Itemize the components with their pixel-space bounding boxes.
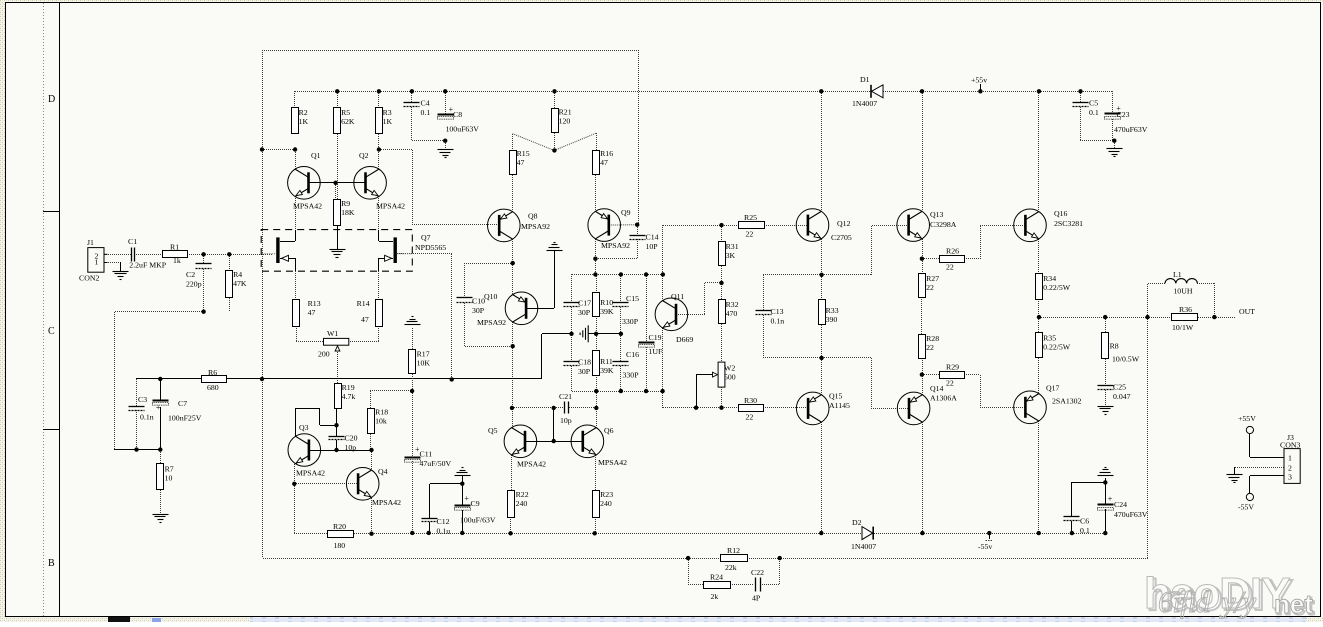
svg-text:120: 120	[559, 117, 571, 126]
junction C9 top	[460, 482, 464, 486]
wire Q12 collector riser	[821, 91, 823, 211]
wire Q3 base wire	[309, 450, 372, 452]
ground R7 gnd	[153, 515, 169, 523]
wire x638 vertical	[638, 50, 640, 225]
transistor Q14	[897, 384, 957, 425]
svg-text:R9: R9	[341, 199, 350, 208]
svg-text:C21: C21	[559, 392, 572, 401]
wire C14 vert	[637, 225, 639, 236]
wire R1 to gate	[187, 254, 273, 256]
svg-text:0.1: 0.1	[1089, 108, 1099, 117]
wire R8 to C25	[1105, 359, 1107, 385]
transistor Q16	[1014, 209, 1083, 242]
wire bottom input wire	[114, 449, 160, 451]
svg-text:R2: R2	[299, 108, 308, 117]
wire Q4 emitter drop	[371, 498, 373, 533]
capacitor C24	[1098, 494, 1148, 519]
wire Q11 base path	[676, 283, 722, 315]
transistor Q8	[488, 209, 551, 242]
svg-text:2SA1302: 2SA1302	[1052, 397, 1082, 406]
wire R18 top riser	[370, 391, 372, 408]
junction stair	[334, 423, 338, 427]
junction R25 left	[719, 223, 723, 227]
wire Q8c chain	[512, 239, 514, 295]
wire C20 top	[336, 425, 338, 436]
wire R9 gnd stem	[337, 225, 339, 249]
svg-text:10UH: 10UH	[1173, 287, 1192, 296]
svg-text:R6: R6	[208, 368, 217, 377]
capacitor C1	[128, 237, 167, 270]
resistor R34	[1036, 274, 1071, 300]
node OUT	[1239, 307, 1255, 316]
wire R29 to Q17b	[964, 375, 1025, 408]
junction C24 bottom	[1103, 531, 1107, 535]
svg-text:MPSA42: MPSA42	[372, 498, 401, 507]
wire C4-C8 bottom	[412, 107, 446, 150]
svg-text:R19: R19	[342, 383, 355, 392]
svg-text:C9: C9	[471, 499, 480, 508]
resistor R25	[739, 213, 765, 239]
svg-text:470uF63V: 470uF63V	[1114, 125, 1148, 134]
wire R14-W1	[349, 326, 379, 342]
transistor Q11	[655, 292, 693, 344]
wire R19 top	[337, 384, 339, 395]
svg-text:10K: 10K	[417, 359, 431, 368]
wire R31-R32	[721, 266, 723, 300]
wire Q5-Q6 base	[525, 441, 583, 443]
resistor R19	[335, 383, 356, 409]
svg-text:1K: 1K	[383, 117, 393, 126]
wire R21 bottom to apex	[554, 133, 556, 150]
svg-text:22k: 22k	[725, 563, 737, 572]
junction C21 c	[594, 406, 598, 410]
resistor R23	[593, 490, 614, 518]
junction -55v node	[987, 531, 991, 535]
wire C3 bottom	[136, 410, 138, 450]
svg-text:R31: R31	[726, 242, 739, 251]
wire R33 bottom	[821, 325, 823, 358]
wire Q6 collector riser	[596, 391, 598, 428]
svg-text:680: 680	[207, 383, 219, 392]
wire C20 bottom	[336, 440, 338, 450]
svg-text:39K: 39K	[600, 307, 614, 316]
junction C10 top	[511, 261, 515, 265]
svg-text:Q17: Q17	[1046, 384, 1060, 393]
junction net b	[619, 272, 623, 276]
resistor R18	[368, 408, 389, 434]
transistor Q13	[897, 209, 957, 242]
wire Q13 collector riser	[922, 91, 924, 211]
svg-text:47: 47	[361, 315, 369, 324]
svg-text:D669: D669	[676, 335, 693, 344]
svg-text:0.1u: 0.1u	[437, 527, 451, 536]
wire C15 bottom	[620, 307, 622, 334]
svg-text:R7: R7	[165, 465, 174, 474]
svg-text:R26: R26	[946, 247, 959, 256]
wire C9 bottom	[462, 510, 464, 533]
capacitor C25	[1098, 383, 1131, 402]
transistor Q3	[288, 423, 325, 478]
junction Q3 base	[334, 448, 338, 452]
wire Q2c to Q8 base	[379, 150, 499, 226]
wire Q15 collector riser	[821, 422, 823, 533]
wire R10 top	[596, 274, 598, 292]
svg-text:OUT: OUT	[1239, 307, 1255, 316]
svg-text:100uF63V: 100uF63V	[446, 125, 480, 134]
wire R26 to Q16b	[964, 225, 1025, 259]
wire C24 gnd stem	[1105, 478, 1107, 482]
wire R12 link R	[688, 558, 721, 560]
capacitor C4	[404, 99, 431, 118]
svg-text:0.047: 0.047	[1113, 392, 1131, 401]
svg-text:10k: 10k	[375, 417, 387, 426]
svg-text:C1: C1	[128, 237, 137, 246]
capacitor C14	[630, 233, 659, 252]
wire jfet R gate	[397, 254, 452, 380]
junction rail C5	[1078, 89, 1082, 93]
wire R34 bottom	[1038, 299, 1040, 317]
wire R30 rail	[663, 407, 696, 409]
svg-text:R35: R35	[1043, 334, 1056, 343]
wire R5 top	[337, 91, 339, 108]
svg-text:C17: C17	[578, 299, 591, 308]
svg-text:0.1: 0.1	[421, 108, 431, 117]
svg-text:MPSA92: MPSA92	[477, 318, 506, 327]
junction rail C8	[443, 89, 447, 93]
junction Q15 bottom	[819, 531, 823, 535]
svg-text:10/0.5W: 10/0.5W	[1112, 355, 1140, 364]
wire Q4 base wire	[294, 483, 358, 485]
transistor Q2	[354, 151, 405, 211]
junction W2 wiper	[694, 406, 698, 410]
resistor R6	[202, 368, 227, 392]
wire C3 vert	[136, 379, 138, 406]
wire R13-W1	[296, 326, 324, 342]
wire C1 to R1	[136, 254, 162, 256]
wire R19 bottom stair	[336, 408, 338, 425]
svg-text:R32: R32	[726, 300, 739, 309]
wire C7 bottom	[160, 407, 162, 450]
capacitor C17	[564, 299, 592, 318]
wire jfet R source	[378, 258, 380, 271]
svg-text:47: 47	[517, 158, 525, 167]
resistor R29	[940, 363, 965, 388]
junction mid c	[619, 332, 623, 336]
resistor R12	[721, 546, 748, 572]
svg-text:240: 240	[600, 499, 612, 508]
wire C17 chain top	[571, 274, 573, 302]
resistor R24	[704, 573, 731, 602]
resistor R20	[328, 522, 354, 550]
svg-text:0.22/5W: 0.22/5W	[1043, 283, 1071, 292]
wire Q2 collector	[378, 134, 380, 169]
svg-text:Q3: Q3	[299, 423, 309, 432]
junction rail Q13	[920, 89, 924, 93]
wire jfet R source2	[379, 258, 393, 260]
wire C13 top rail	[763, 274, 822, 276]
wire J1 pin1 wire	[104, 262, 120, 264]
wire W1 wiper line	[337, 352, 339, 384]
svg-text:R34: R34	[1043, 274, 1056, 283]
junction C3 bottom	[134, 447, 138, 451]
wire W2 bottom	[721, 387, 723, 408]
wire R25 to Q12b	[764, 225, 808, 227]
svg-text:R27: R27	[926, 274, 939, 283]
svg-text:R3: R3	[383, 108, 392, 117]
svg-text:1UF: 1UF	[649, 347, 664, 356]
resistor R27	[919, 274, 940, 298]
capacitor C19	[639, 333, 664, 356]
junction C6 bottom	[1070, 531, 1074, 535]
wire Q2 emitter	[378, 196, 380, 230]
wire Q3 emitter drop	[294, 464, 296, 484]
junction C9 bottom	[460, 531, 464, 535]
svg-text:+: +	[156, 403, 161, 412]
wire R11 top	[596, 334, 598, 350]
svg-text:+55V: +55V	[1238, 414, 1256, 423]
junction R17 bottom	[410, 389, 414, 393]
wire R36 out	[1198, 317, 1236, 319]
capacitor C8	[438, 105, 463, 119]
junction net c	[644, 272, 648, 276]
svg-text:Q2: Q2	[359, 151, 369, 160]
wire R5 bottom	[337, 134, 339, 199]
resistor R21	[552, 108, 572, 133]
svg-text:1N4007: 1N4007	[852, 99, 877, 108]
svg-text:200: 200	[318, 350, 330, 359]
svg-text:C: C	[48, 326, 55, 337]
wire C2 drop	[203, 254, 205, 263]
svg-text:C19: C19	[649, 333, 662, 342]
svg-text:D2: D2	[852, 518, 862, 527]
wire C11 vert	[412, 391, 414, 457]
junction C14 left	[593, 257, 597, 261]
svg-text:+: +	[1108, 494, 1113, 503]
wire R3 top	[378, 91, 380, 108]
ground input gnd	[113, 272, 129, 280]
svg-text:4.7k: 4.7k	[342, 392, 356, 401]
wire R30 to Q15b	[763, 407, 808, 409]
wire R17 gnd stem	[412, 328, 414, 349]
wire mid gnd link	[588, 333, 621, 335]
wire R26 link	[922, 258, 940, 260]
wire C23 bottom	[1112, 119, 1114, 141]
ground Q10 base gnd	[547, 243, 563, 251]
ground C23 gnd	[1107, 149, 1123, 157]
svg-text:R8: R8	[1110, 342, 1119, 351]
svg-text:NPD5565: NPD5565	[415, 243, 446, 252]
wire Q5 collector riser	[512, 408, 514, 428]
svg-text:18K: 18K	[341, 208, 355, 217]
svg-text:+55v: +55v	[971, 76, 987, 85]
svg-text:10P: 10P	[646, 242, 659, 251]
wire L1 left	[1148, 283, 1166, 317]
svg-text:30P: 30P	[472, 306, 485, 315]
svg-text:220p: 220p	[186, 280, 202, 289]
wire R16 to Q9e	[595, 175, 597, 211]
svg-text:W2: W2	[724, 364, 735, 373]
wire R24C22 loop L	[688, 558, 703, 585]
svg-text:R25: R25	[744, 213, 757, 222]
wire Q10c chain	[512, 322, 514, 408]
resistor R14	[357, 299, 383, 327]
svg-text:+: +	[464, 494, 469, 503]
wire R29 link	[922, 374, 940, 376]
wire Q1 emitter	[295, 196, 297, 230]
wire C17-C18	[571, 307, 573, 361]
svg-text:R28: R28	[926, 334, 939, 343]
svg-text:MPSA42: MPSA42	[598, 458, 627, 467]
svg-text:C15: C15	[626, 294, 639, 303]
junction rail Q12	[819, 89, 823, 93]
svg-text:C7: C7	[178, 399, 187, 408]
ground C25 gnd	[1098, 407, 1114, 415]
wire box top	[262, 50, 638, 52]
wire Q11e to R30 rail	[662, 391, 664, 408]
wire bot rail to Q14b	[822, 358, 909, 409]
svg-text:Q10: Q10	[484, 292, 498, 301]
wire net bottom rail	[572, 391, 663, 393]
wire R7 bottom	[160, 490, 162, 514]
capacitor C10	[457, 297, 486, 316]
resistor R7	[157, 464, 174, 490]
svg-text:Q4: Q4	[378, 467, 388, 476]
ground R17 gnd	[405, 317, 421, 325]
wire R32-W2	[721, 324, 723, 362]
wire W2 wiper wire	[696, 375, 714, 409]
svg-text:100nF25V: 100nF25V	[168, 414, 202, 423]
svg-text:R12: R12	[727, 546, 740, 555]
junction C11 bottom	[410, 531, 414, 535]
junction Q5Q6 base	[552, 439, 556, 443]
wire feedback rail	[780, 558, 1148, 560]
svg-text:3K: 3K	[726, 251, 736, 260]
svg-text:R24: R24	[710, 573, 723, 582]
svg-text:Q7: Q7	[421, 233, 431, 242]
wire jfet R drain	[379, 241, 393, 243]
capacitor C16	[613, 350, 640, 366]
svg-text:Q14: Q14	[930, 384, 944, 393]
diode D2	[851, 518, 876, 551]
svg-text:Q11: Q11	[671, 292, 684, 301]
wire V left	[513, 134, 555, 151]
power terminal +55v	[971, 76, 987, 85]
svg-text:62K: 62K	[341, 117, 355, 126]
wire J3 pin1 wire	[1250, 434, 1285, 458]
svg-text:B: B	[48, 558, 55, 569]
svg-text:C5: C5	[1089, 99, 1098, 108]
wire -55 rail B	[354, 533, 863, 535]
svg-text:390: 390	[826, 315, 838, 324]
svg-text:100uF/63V: 100uF/63V	[460, 516, 496, 525]
wire +55v tick	[980, 84, 982, 91]
transistor Q7 dual JFET NPD5565	[261, 230, 446, 272]
svg-text:MPSA42: MPSA42	[293, 202, 322, 211]
potentiometer W1	[318, 329, 349, 359]
wire R2 top	[294, 91, 296, 108]
junction fb right	[778, 556, 782, 560]
capacitor C2	[186, 264, 212, 289]
ground C24 gnd	[1098, 468, 1114, 476]
ground mid network	[580, 325, 588, 342]
junction net d	[661, 272, 665, 276]
transistor Q6	[571, 425, 627, 467]
wire R24-C22	[730, 584, 754, 586]
svg-text:1: 1	[1288, 454, 1292, 463]
resistor R15	[510, 149, 530, 175]
wire C9 gnd stem	[462, 476, 464, 484]
svg-text:L1: L1	[1173, 270, 1182, 279]
junction C5C23 bottom	[1112, 139, 1116, 143]
junction C24 top	[1103, 480, 1107, 484]
svg-text:2SC3281: 2SC3281	[1054, 219, 1083, 228]
svg-text:MPSA92: MPSA92	[521, 222, 550, 231]
wire C24 bottom	[1105, 509, 1107, 533]
resistor R5	[334, 108, 355, 134]
svg-text:C8: C8	[453, 110, 462, 119]
connector J1 CON2	[79, 238, 108, 283]
svg-text:MPSA42: MPSA42	[517, 460, 546, 469]
svg-text:6ifid: 6ifid	[1158, 584, 1211, 619]
junction net a	[593, 272, 597, 276]
svg-text:CON3: CON3	[1280, 441, 1300, 450]
wire R15 to Q8e	[512, 175, 514, 212]
svg-text:Q16: Q16	[1054, 209, 1068, 218]
svg-text:R21: R21	[559, 108, 572, 117]
junction out L1	[1145, 315, 1149, 319]
svg-text:Q13: Q13	[930, 210, 944, 219]
wire J3 pin2 wire	[1234, 467, 1284, 469]
wire C13 left bot	[763, 315, 765, 358]
svg-text:240: 240	[516, 499, 528, 508]
svg-text:D: D	[48, 94, 55, 105]
ground jfet gnd	[330, 250, 346, 258]
resistor R8	[1102, 333, 1119, 359]
junction C2 top	[201, 252, 205, 256]
capacitor C21	[559, 392, 572, 425]
svg-text:30P: 30P	[578, 308, 591, 317]
junction x262 R6	[260, 377, 264, 381]
junction C21 a	[510, 406, 514, 410]
junction R4 top	[227, 252, 231, 256]
wire jfet L source	[280, 258, 296, 271]
wire C8 top	[445, 91, 447, 114]
transistor Q12	[796, 209, 852, 242]
wire C14 bottom	[595, 239, 638, 259]
junction out R36r	[1212, 315, 1216, 319]
wire Q1 collector	[295, 150, 297, 169]
svg-text:C22: C22	[751, 568, 764, 577]
junction R22 bottom	[508, 531, 512, 535]
junction C10 bottom	[511, 344, 515, 348]
svg-text:4P: 4P	[752, 594, 761, 603]
wire C12 branch	[430, 484, 463, 519]
wire R27-R28	[921, 297, 923, 334]
wire base tie	[553, 408, 555, 441]
svg-text:2: 2	[1288, 463, 1292, 472]
junction mid b	[594, 332, 598, 336]
svg-text:C2705: C2705	[831, 233, 852, 242]
svg-text:MPSA42: MPSA42	[376, 202, 405, 211]
resistor R16	[593, 149, 614, 175]
junction Q1Q2 base	[333, 181, 337, 185]
svg-text:C24: C24	[1114, 500, 1127, 509]
ground J3 gnd	[1227, 475, 1243, 483]
svg-text:C25: C25	[1113, 383, 1126, 392]
junction rail Q16	[1037, 89, 1041, 93]
svg-text:C13: C13	[771, 307, 784, 316]
wire Q3e to R20	[294, 484, 296, 533]
